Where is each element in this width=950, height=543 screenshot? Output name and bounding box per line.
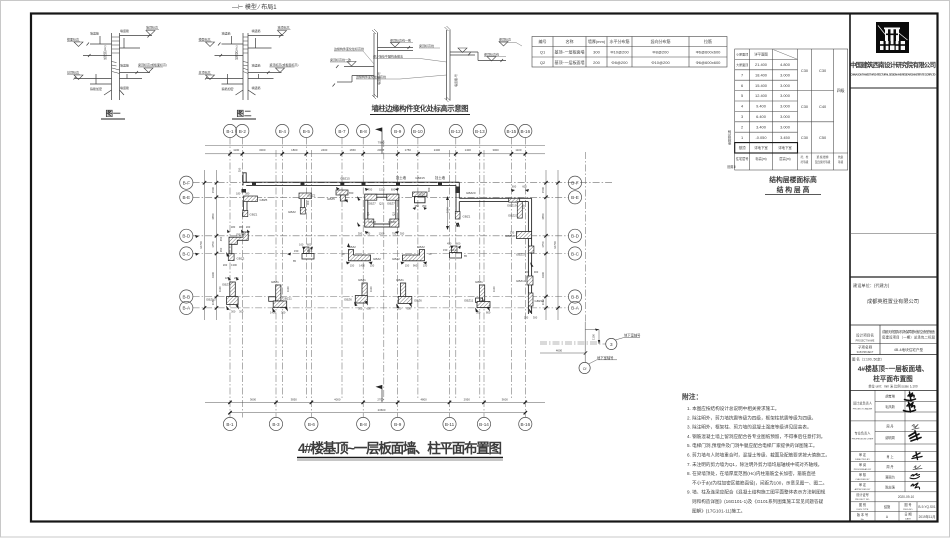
svg-text:图 号: 图 号 [904, 502, 911, 507]
left axis circles [180, 176, 193, 314]
column at B-13 [464, 280, 496, 315]
svg-text:380: 380 [239, 225, 244, 229]
svg-text:边缘构件变化处标高线: 边缘构件变化处标高线 [356, 74, 386, 79]
svg-text:Q1: Q1 [540, 50, 546, 55]
svg-text:3.450: 3.450 [780, 135, 791, 140]
svg-text:2700: 2700 [377, 397, 384, 401]
svg-text:1400: 1400 [465, 148, 472, 152]
vertical grid lines [230, 138, 586, 418]
svg-text:3000: 3000 [259, 148, 266, 152]
svg-text:单位 unit：mm 米 比例 scale 1∶100: 单位 unit：mm 米 比例 scale 1∶100 [868, 383, 918, 388]
svg-text:结构层楼面标高: 结构层楼面标高 [769, 175, 817, 184]
svg-text:梁顶标高线: 梁顶标高线 [419, 43, 434, 48]
svg-text:B-C: B-C [571, 251, 580, 256]
svg-text:300: 300 [281, 311, 286, 315]
svg-text:1100: 1100 [286, 286, 290, 292]
svg-text:3850: 3850 [211, 213, 215, 220]
svg-text:设计证号: 设计证号 [856, 492, 869, 497]
svg-text:抗震: 抗震 [838, 155, 844, 159]
svg-text:150: 150 [443, 248, 448, 252]
svg-text:B-D: B-D [182, 234, 191, 239]
svg-text:B-14: B-14 [479, 422, 489, 427]
svg-text:审 定: 审 定 [859, 452, 867, 457]
svg-text:基顶标高: 基顶标高 [199, 70, 211, 75]
svg-text:Φ6@600x600: Φ6@600x600 [696, 50, 722, 55]
svg-text:B-B: B-B [182, 294, 190, 299]
bottom datum flag [381, 385, 383, 402]
svg-text:结 构 层 高: 结 构 层 高 [777, 185, 810, 194]
svg-text:GBZ3: GBZ3 [237, 257, 245, 261]
level marks fig2 [206, 31, 287, 80]
column B-5 under wall [299, 193, 312, 199]
svg-text:160: 160 [299, 243, 304, 247]
svg-text:GBZ6: GBZ6 [344, 298, 352, 302]
svg-text:房建设项目（一期）总承包二标段: 房建设项目（一期）总承包二标段 [882, 335, 936, 340]
svg-text:GBZ1: GBZ1 [396, 278, 404, 282]
svg-text:图 别: 图 别 [859, 502, 866, 507]
svg-text:柱平面布置图: 柱平面布置图 [873, 374, 913, 383]
svg-text:详地下室: 详地下室 [754, 145, 768, 150]
svg-text:Q2: Q2 [540, 60, 546, 65]
svg-text:B-12: B-12 [451, 129, 461, 134]
svg-text:B-11: B-11 [445, 422, 455, 427]
svg-text:大屋面顶: 大屋面顶 [736, 62, 748, 67]
svg-text:380: 380 [245, 192, 250, 196]
svg-text:Q2: Q2 [379, 202, 383, 206]
wall B-12 top vertical + east run [456, 182, 532, 219]
left dimension lines [204, 170, 206, 320]
svg-text:450: 450 [219, 236, 223, 241]
svg-text:墙顶标高: 墙顶标高 [278, 25, 290, 30]
svg-text:4300: 4300 [211, 271, 215, 278]
svg-text:15.400: 15.400 [755, 83, 768, 88]
svg-text:200: 200 [223, 263, 228, 267]
svg-text:B-B: B-B [571, 294, 579, 299]
svg-text:PROOFREAD BY: PROOFREAD BY [854, 468, 872, 471]
svg-text:中国建筑西南设计研究院有限公司: 中国建筑西南设计研究院有限公司 [850, 60, 936, 69]
svg-text:GBZ8: GBZ8 [368, 220, 376, 224]
svg-text:2019年11月: 2019年11月 [919, 514, 936, 519]
svg-text:-0.050: -0.050 [755, 135, 767, 140]
svg-text:CHINA SOUTHWEST ARCHITECTURAL: CHINA SOUTHWEST ARCHITECTURAL DESIGN AND… [851, 73, 936, 77]
svg-text:300: 300 [534, 270, 539, 274]
svg-text:PROFESSION CHIEF: PROFESSION CHIEF [852, 439, 874, 441]
svg-text:1500: 1500 [541, 186, 545, 193]
svg-text:1100: 1100 [592, 334, 596, 340]
level marks sub B [458, 42, 508, 62]
svg-text:楼面标高: 楼面标高 [199, 37, 211, 42]
column B-7 under wall [336, 190, 348, 195]
signature table [850, 389, 938, 391]
svg-text:GBZ8: GBZ8 [388, 220, 396, 224]
svg-text:小屋面顶: 小屋面顶 [736, 52, 748, 57]
svg-text:200: 200 [524, 316, 529, 320]
svg-text:GBZ5: GBZ5 [327, 197, 335, 201]
svg-text:300: 300 [239, 310, 244, 314]
svg-text:1500: 1500 [211, 186, 215, 193]
svg-text:700: 700 [368, 188, 373, 192]
basement axis note Cf [579, 362, 590, 373]
svg-text:基顶~一层板面墙: 基顶~一层板面墙 [555, 49, 585, 55]
svg-text:谢明周: 谢明周 [885, 435, 895, 440]
svg-text:C30: C30 [819, 68, 827, 73]
sub project row [850, 343, 938, 345]
svg-text:DATE: DATE [905, 518, 911, 521]
svg-text:9.400: 9.400 [756, 104, 767, 109]
svg-text:蒋丽为: 蒋丽为 [885, 475, 895, 480]
svg-text:DWG.TYPE: DWG.TYPE [857, 509, 869, 511]
svg-text:GBZ15: GBZ15 [340, 177, 350, 181]
svg-text:地下室轴号: 地下室轴号 [597, 355, 614, 360]
svg-text:梁,板,楼梯: 梁,板,楼梯 [817, 155, 829, 159]
top dimension values [233, 148, 522, 152]
svg-text:650: 650 [349, 191, 354, 195]
svg-text:图 名（1:100, 50定）: 图 名（1:100, 50定） [852, 357, 884, 362]
svg-text:编号: 编号 [539, 38, 547, 44]
svg-text:GBZ1: GBZ1 [358, 278, 366, 282]
company logo CSWADI [876, 22, 909, 53]
svg-text:600: 600 [391, 188, 396, 192]
svg-text:150: 150 [405, 264, 410, 268]
svg-text:地下室轴号: 地下室轴号 [624, 333, 641, 338]
svg-text:600: 600 [307, 243, 312, 247]
svg-text:B-A: B-A [571, 306, 580, 311]
svg-text:4B-4地块住宅户型: 4B-4地块住宅户型 [894, 347, 924, 352]
svg-text:300: 300 [533, 316, 538, 320]
level marks fig1 [74, 31, 155, 80]
svg-text:6: 6 [741, 83, 743, 88]
svg-text:7: 7 [741, 72, 743, 77]
svg-text:300: 300 [358, 307, 363, 311]
right dimension values [541, 186, 557, 305]
stairwell corner members [365, 194, 377, 200]
svg-text:600: 600 [407, 307, 412, 311]
svg-text:5: 5 [741, 93, 743, 98]
top axis labels [226, 129, 530, 134]
svg-text:墙竖筋: 墙竖筋 [120, 28, 129, 33]
column at B-9 [396, 278, 422, 311]
svg-text:1300: 1300 [231, 263, 237, 267]
svg-text:23600: 23600 [378, 408, 386, 412]
svg-text:B-9-YQ.S01: B-9-YQ.S01 [918, 505, 935, 509]
svg-text:边缘构件变化处标高线: 边缘构件变化处标高线 [334, 46, 364, 51]
svg-text:墙竖筋: 墙竖筋 [90, 31, 99, 36]
svg-text:180: 180 [231, 225, 236, 229]
svg-text:加密区(Hc): 加密区(Hc) [234, 45, 239, 60]
svg-text:600: 600 [367, 307, 372, 311]
retaining wall along B-F [243, 173, 459, 186]
svg-text:B-13: B-13 [475, 129, 485, 134]
east boundary wall going south [528, 198, 531, 314]
svg-text:SUB PROJECT: SUB PROJECT [857, 351, 874, 354]
svg-text:150: 150 [294, 249, 299, 253]
svg-text:墙竖筋-号: 墙竖筋-号 [453, 74, 458, 87]
svg-text:1400: 1400 [359, 264, 365, 268]
svg-text:墙竖筋: 墙竖筋 [222, 31, 231, 36]
svg-text:200: 200 [593, 60, 600, 65]
svg-text:水平分布筋: 水平分布筋 [610, 38, 630, 44]
svg-text:GBZ14: GBZ14 [516, 279, 526, 283]
svg-text:B-3: B-3 [272, 422, 280, 427]
svg-text:900: 900 [306, 200, 310, 205]
svg-text:16700: 16700 [199, 241, 203, 249]
svg-text:成都英胜置业有限公司: 成都英胜置业有限公司 [867, 297, 919, 305]
svg-text:审 阅: 审 阅 [859, 462, 866, 467]
svg-text:2. 除注明外，剪力墙抗震等级为四级，框架柱抗震等级为四级。: 2. 除注明外，剪力墙抗震等级为四级，框架柱抗震等级为四级。 [687, 414, 816, 421]
svg-text:GBZ10: GBZ10 [236, 233, 246, 237]
svg-text:GBZ7: GBZ7 [222, 283, 230, 287]
svg-text:No.: No. [861, 519, 865, 521]
svg-text:600: 600 [512, 185, 517, 189]
svg-text:墙竖筋: 墙竖筋 [252, 85, 261, 90]
svg-text:600: 600 [456, 242, 461, 246]
wall stub GBZ21 below east run [517, 202, 522, 219]
svg-text:Φ8@200: Φ8@200 [611, 60, 628, 65]
svg-text:竖向分布筋: 竖向分布筋 [651, 38, 671, 44]
svg-text:基顶: 基顶 [739, 145, 746, 150]
svg-text:C30: C30 [801, 68, 809, 73]
svg-text:C50: C50 [819, 135, 827, 140]
svg-text:3600: 3600 [250, 397, 257, 401]
right axis labels [571, 181, 580, 311]
svg-text:B-8: B-8 [360, 422, 368, 427]
svg-text:审 定: 审 定 [859, 482, 867, 487]
svg-text:2: 2 [741, 124, 743, 129]
svg-text:B-1: B-1 [226, 422, 234, 427]
svg-text:GBZ3: GBZ3 [417, 193, 425, 197]
svg-text:加密区(Hc): 加密区(Hc) [102, 45, 107, 60]
svg-text:GBZ17: GBZ17 [516, 253, 526, 257]
svg-text:墙顶标高: 墙顶标高 [146, 25, 158, 30]
svg-text:3850: 3850 [291, 397, 298, 401]
svg-text:审 核: 审 核 [859, 472, 867, 477]
svg-text:详平面图: 详平面图 [754, 52, 768, 57]
right dimension lines [545, 170, 547, 320]
svg-text:图二: 图二 [237, 109, 252, 118]
svg-text:周 丹: 周 丹 [886, 424, 894, 429]
svg-text:2950: 2950 [464, 397, 471, 401]
svg-text:层高(m): 层高(m) [779, 156, 790, 161]
svg-text:GBZ2: GBZ2 [308, 194, 316, 198]
svg-text:150: 150 [350, 264, 355, 268]
svg-text:设计项目名: 设计项目名 [856, 333, 874, 338]
titleblock divider 1 [850, 87, 938, 89]
svg-text:四级: 四级 [837, 88, 845, 93]
svg-text:7. 未注明的剪力墙为Q1，除注明外剪力墙均居轴线中或对齐轴: 7. 未注明的剪力墙为Q1，除注明外剪力墙均居轴线中或对齐轴线。 [687, 461, 822, 468]
svg-text:1100: 1100 [218, 286, 222, 292]
svg-text:1100: 1100 [233, 148, 239, 152]
svg-text:则和构造详图》(16G101-1)及《G101系列图集施工常: 则和构造详图》(16G101-1)及《G101系列图集施工常见问题答疑 [692, 498, 824, 505]
svg-text:APPROVED BY: APPROVED BY [855, 488, 871, 491]
svg-text:CHECKED BY: CHECKED BY [855, 479, 870, 481]
svg-text:B-16: B-16 [520, 422, 530, 427]
svg-text:墙柱边缘构件变化处标高示意图: 墙柱边缘构件变化处标高示意图 [372, 104, 469, 113]
svg-text:基顶~一层板面墙: 基顶~一层板面墙 [555, 59, 585, 65]
svg-text:C40: C40 [819, 104, 827, 109]
svg-text:16700: 16700 [553, 241, 557, 249]
svg-text:GBZ21: GBZ21 [508, 214, 518, 218]
svg-text:4000: 4000 [334, 397, 341, 401]
svg-text:B-E: B-E [571, 195, 579, 200]
svg-text:4600: 4600 [556, 349, 563, 353]
svg-text:B-F: B-F [571, 181, 579, 186]
svg-text:设计总负责人: 设计总负责人 [853, 401, 873, 406]
svg-text:3000: 3000 [492, 148, 499, 152]
svg-text:住宅层号: 住宅层号 [736, 156, 749, 161]
svg-text:Q2: Q2 [392, 212, 396, 216]
svg-text:GBZ20: GBZ20 [466, 191, 476, 195]
titleblock divider 2 [850, 233, 938, 235]
column B-11/B-C KZ1 [452, 246, 458, 253]
bottom dimension lines [205, 401, 545, 403]
svg-text:B-E: B-E [182, 195, 190, 200]
svg-text:4. 钢筋混凝土墙上留洞应配合各专业图纸预留，不得事后任意打: 4. 钢筋混凝土墙上留洞应配合各专业图纸预留，不得事后任意打洞。 [687, 433, 825, 440]
svg-text:150: 150 [522, 204, 526, 209]
svg-text:挡土墙: 挡土墙 [396, 175, 407, 180]
svg-text:附注：: 附注： [682, 392, 702, 401]
svg-text:墙竖筋: 墙竖筋 [252, 28, 261, 33]
svg-text:150: 150 [423, 264, 428, 268]
title block left border [849, 14, 851, 522]
svg-text:6.400: 6.400 [756, 114, 767, 119]
svg-text:梁顶标高(或板面标高): 梁顶标高(或板面标高) [270, 62, 299, 67]
svg-text:GBZ1: GBZ1 [475, 280, 483, 284]
svg-text:图解》(17G101-11)施工。: 图解》(17G101-11)施工。 [692, 507, 745, 514]
svg-text:不小于d(d为柱加密区箍筋直径)，间距为100，示意见图一、: 不小于d(d为柱加密区箍筋直径)，间距为100，示意见图一、图二。 [692, 479, 827, 486]
column at B-8 [344, 278, 373, 311]
svg-text:墙竖筋: 墙竖筋 [252, 63, 261, 68]
project name row [850, 324, 938, 326]
svg-text:建设单位：(代建方): 建设单位：(代建方) [853, 282, 890, 289]
svg-text:1: 1 [741, 135, 743, 140]
svg-text:B-C: B-C [182, 251, 191, 256]
drawing name row [850, 354, 938, 356]
svg-text:B-4: B-4 [279, 129, 287, 134]
svg-text:2000: 2000 [377, 148, 384, 152]
ticks on B-D B-C axes left [195, 235, 199, 238]
svg-text:结施: 结施 [884, 504, 891, 509]
svg-text:箍筋加密: 箍筋加密 [90, 86, 102, 91]
svg-text:B-6: B-6 [308, 422, 316, 427]
titleblock divider 3 [850, 276, 938, 278]
bottom axis labels [226, 422, 530, 427]
svg-text:PROJECT NAME: PROJECT NAME [856, 340, 875, 343]
svg-text:450: 450 [447, 242, 452, 246]
svg-text:B-A: B-A [182, 306, 191, 311]
level marks sub A [347, 43, 400, 67]
svg-text:GBZ11: GBZ11 [464, 299, 474, 303]
svg-text:350: 350 [219, 247, 223, 252]
svg-text:基顶标高: 基顶标高 [67, 70, 79, 75]
column GBZ20 at B-12 wall top [455, 187, 460, 194]
svg-text:B-D: B-D [571, 234, 580, 239]
svg-text:专业负责人: 专业负责人 [855, 431, 872, 436]
svg-text:GBZ5: GBZ5 [260, 198, 268, 202]
svg-text:GBZ7: GBZ7 [368, 202, 376, 206]
svg-text:GBZ11: GBZ11 [283, 297, 293, 301]
svg-text:GBZ1: GBZ1 [271, 280, 279, 284]
svg-text:300: 300 [593, 50, 600, 55]
svg-text:1. 本图应按结构设计总说明中相关要求施工。: 1. 本图应按结构设计总说明中相关要求施工。 [687, 405, 779, 412]
svg-text:PROJECT NO.: PROJECT NO. [855, 499, 870, 501]
svg-text:3: 3 [610, 342, 613, 347]
svg-text:3600: 3600 [502, 397, 509, 401]
svg-text:设置1/: 设置1/ [727, 164, 736, 169]
left dimension values [199, 186, 215, 305]
svg-text:DIRECTED BY: DIRECTED BY [855, 459, 870, 461]
svg-text:毛凤新: 毛凤新 [885, 404, 895, 409]
svg-text:拉筋: 拉筋 [704, 38, 712, 44]
bottom dimension values [250, 397, 508, 411]
wall piece GBZ19 on east run [509, 198, 520, 202]
svg-text:梁少墙处牛腿构造做法: 梁少墙处牛腿构造做法 [373, 54, 403, 59]
svg-text:650: 650 [427, 187, 431, 192]
svg-text:楼面标高: 楼面标高 [67, 37, 79, 42]
svg-text:Φ10@200: Φ10@200 [651, 60, 670, 65]
svg-text:梁顶标高: 梁顶标高 [499, 37, 511, 42]
svg-text:墙竖筋: 墙竖筋 [120, 85, 129, 90]
svg-text:C30: C30 [801, 135, 809, 140]
piece GBZ17 at B-C [528, 246, 534, 253]
L-column B-9/B-C mirrored [403, 250, 425, 261]
svg-text:C30: C30 [801, 104, 809, 109]
svg-text:18.400: 18.400 [755, 72, 768, 77]
svg-text:1100: 1100 [369, 286, 373, 292]
svg-text:12.400: 12.400 [755, 93, 768, 98]
svg-text:800: 800 [486, 311, 491, 315]
svg-text:梁顶标高线一致: 梁顶标高线一致 [330, 57, 351, 62]
svg-text:9. 墙、柱及连梁应配合《混凝土结构施工图平面整体表示方法制: 9. 墙、柱及连梁应配合《混凝土结构施工图平面整体表示方法制图规 [687, 489, 826, 496]
svg-text:Φ6@600x600: Φ6@600x600 [696, 60, 722, 65]
column GBZ1 at B-12 wall bottom [455, 212, 460, 220]
svg-text:GBZ14: GBZ14 [535, 299, 545, 303]
block GBZ16 at B-D [517, 232, 532, 239]
svg-text:名称: 名称 [566, 38, 574, 44]
svg-text:梁顶标高线一致: 梁顶标高线一致 [390, 38, 411, 43]
svg-text:2400: 2400 [321, 148, 328, 152]
sub figure A wall [333, 29, 414, 99]
svg-text:GBZ16: GBZ16 [505, 234, 515, 238]
svg-text:Φ8@200: Φ8@200 [652, 50, 669, 55]
svg-text:Q2: Q2 [366, 212, 370, 216]
svg-text:梁顶标高线: 梁顶标高线 [484, 52, 499, 57]
svg-text:B-10: B-10 [413, 129, 423, 134]
bottom axis circles [223, 417, 532, 430]
svg-text:GBZ6: GBZ6 [414, 299, 422, 303]
svg-text:3.400: 3.400 [756, 124, 767, 129]
left axis labels [182, 181, 191, 311]
svg-text:详地下室: 详地下室 [778, 145, 792, 150]
svg-text:3.000: 3.000 [780, 104, 791, 109]
svg-text:GBZ1: GBZ1 [463, 215, 471, 219]
svg-text:350: 350 [238, 167, 242, 172]
pieces GBZ14 on east wall [527, 276, 533, 285]
svg-text:GBZ2: GBZ2 [417, 245, 425, 249]
svg-text:成都天府国际机场保障基地航空食堂宿舍: 成都天府国际机场保障基地航空食堂宿舍 [882, 329, 936, 334]
svg-text:1750: 1750 [405, 148, 412, 152]
svg-text:胡宝琳: 胡宝琳 [885, 394, 895, 399]
svg-text:B-7: B-7 [338, 129, 346, 134]
svg-text:300: 300 [400, 232, 405, 236]
svg-text:1750: 1750 [541, 241, 545, 248]
svg-text:7900: 7900 [378, 141, 385, 145]
svg-text:图一: 图一 [106, 109, 121, 118]
horizontal grid lines [193, 183, 612, 342]
right axis circles [568, 176, 581, 314]
svg-text:及连梁砼等级: 及连梁砼等级 [815, 160, 831, 164]
svg-text:子项名称: 子项名称 [858, 345, 873, 350]
svg-text:GBZ19: GBZ19 [507, 204, 517, 208]
